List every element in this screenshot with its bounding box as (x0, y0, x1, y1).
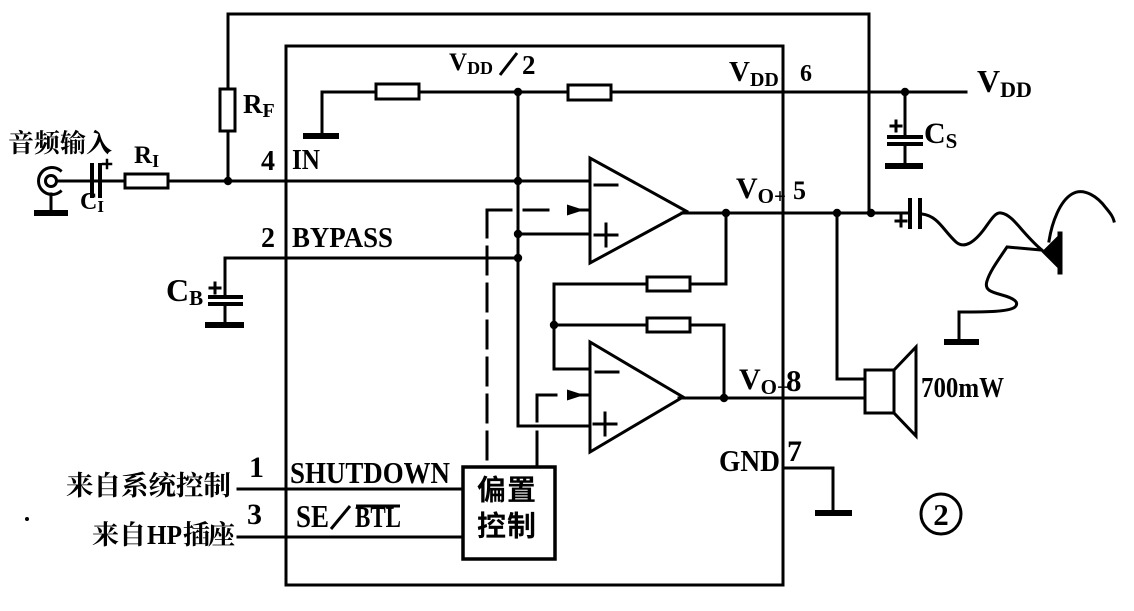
wire: VDD/2 rail to pin 6 VDD (322, 91, 966, 94)
wire: U2 output to pin 8 VO- (679, 397, 865, 400)
wire: VO+ branch down to speaker (837, 213, 865, 379)
figure number (2) (921, 494, 961, 534)
label: audio input (Chinese) (9, 130, 112, 155)
bias control block (463, 467, 555, 559)
ground (headphone) (947, 339, 976, 345)
capacitor CS (supply decoupling, electrolytic) (904, 92, 907, 135)
wire: U1 output to pin 5 VO+ (682, 212, 909, 215)
svg-text:1: 1 (249, 451, 264, 484)
wire: headphone cord (ground side) (959, 247, 1041, 339)
wire: outer loop top (RF branch to output node) (228, 14, 869, 213)
ground (CB) (208, 322, 241, 328)
svg-text:2: 2 (522, 50, 536, 80)
svg-text:BYPASS: BYPASS (292, 223, 393, 254)
speaker LS1 (865, 370, 894, 413)
svg-text:HP: HP (147, 520, 182, 550)
svg-text:SE: SE (296, 498, 329, 534)
svg-text:700mW: 700mW (921, 372, 1004, 404)
wire: U1 output to R4 feedback (554, 213, 726, 284)
label: bias control row1 (Chinese 偏置) (477, 475, 534, 502)
wire: RF branch vertical (227, 14, 230, 181)
svg-text:4: 4 (261, 146, 275, 177)
wire: headphone cord (loop over plug) (1049, 192, 1114, 241)
ground (VDD/2 divider) (306, 133, 336, 139)
wire: bias vertical (VDD/2 node to U2 non-inverting input) (518, 92, 590, 426)
label: from HP jack (Chinese) "chazuo" (184, 521, 235, 546)
headphone plug P1 (1043, 237, 1058, 267)
wire: SHUTDOWN pin 1 (238, 488, 463, 491)
wire: U1 non-inverting input (518, 233, 590, 236)
capacitor CO (output coupling to headphone) (908, 200, 912, 227)
resistor R4 (U1 feedback) (647, 277, 690, 291)
ground (CS) (888, 163, 920, 169)
svg-text:5: 5 (793, 176, 806, 205)
wire: BYPASS pin 2 (225, 257, 518, 260)
resistor R3 (divider right) (568, 85, 611, 100)
IC package boundary (286, 46, 783, 585)
svg-text:3: 3 (247, 498, 262, 531)
label: from system control (Chinese) (67, 471, 230, 497)
svg-text:8: 8 (786, 363, 802, 398)
op-amp U1 (upper half-bridge amplifier) (590, 158, 686, 263)
svg-text:IN: IN (292, 145, 320, 176)
speck (25, 517, 29, 521)
label: bias control row2 (Chinese 控制) (478, 511, 534, 538)
wire: U2 inverting input (554, 284, 590, 369)
svg-text:7: 7 (787, 435, 802, 468)
dashed control line from bias block to U1 (486, 210, 489, 467)
capacitor CB (bypass, to ground) (224, 258, 227, 295)
resistor RF (220, 89, 235, 131)
wire: SE/BTL pin 3 (238, 536, 463, 539)
capacitor CI (input coupling, electrolytic) (90, 165, 94, 196)
svg-text:2: 2 (933, 497, 949, 532)
resistor R2 (divider left) (376, 84, 419, 99)
wire: input line (jack - CI - RI - pin 4 IN - U1 inverting input) (57, 180, 590, 183)
dashed control line from bias block to U2 (536, 395, 539, 421)
ground (pin 7) (818, 510, 849, 516)
svg-text:6: 6 (800, 61, 812, 87)
wire: GND pin 7 (783, 468, 833, 510)
label: from HP jack (Chinese) "laizi" (93, 521, 143, 546)
svg-text:SHUTDOWN: SHUTDOWN (290, 455, 450, 490)
ground (input jack) (37, 210, 65, 216)
svg-text:GND: GND (719, 443, 780, 478)
op-amp U2 (lower half-bridge amplifier) (590, 342, 683, 452)
resistor R5 (U2 feedback) (647, 318, 690, 332)
svg-text:2: 2 (261, 223, 275, 254)
resistor RI (125, 174, 168, 188)
wire: R5 feedback to U2 output (554, 325, 724, 398)
input jack J1 (39, 168, 61, 195)
wire: headphone cord (signal) (922, 213, 1043, 251)
